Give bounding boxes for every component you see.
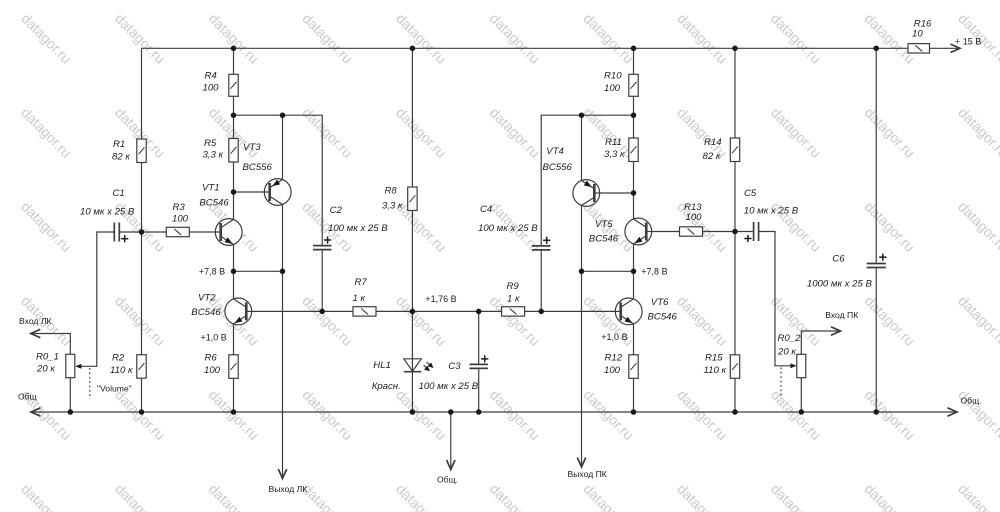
wire output LK xyxy=(282,271,284,477)
wire node to R3 xyxy=(142,231,167,233)
svg-text:10 мк x 25 В: 10 мк x 25 В xyxy=(80,207,135,218)
svg-text:100 мк x 25 В: 100 мк x 25 В xyxy=(419,381,479,392)
wire node to R5 xyxy=(233,115,235,138)
svg-text:R14: R14 xyxy=(704,137,722,148)
wire VT3 base xyxy=(234,191,265,193)
transistor VT1 xyxy=(215,219,242,246)
wire VT2 emitter to R6 xyxy=(233,324,235,355)
resistor R16 xyxy=(908,44,930,53)
svg-text:Вход ЛК: Вход ЛК xyxy=(19,316,51,326)
wire +15V top rail xyxy=(142,47,909,49)
node gnd R2 xyxy=(139,409,145,415)
svg-text:R6: R6 xyxy=(205,353,218,364)
wire R3 to VT1 base xyxy=(189,231,215,233)
svg-text:Общ.: Общ. xyxy=(437,474,458,484)
wire R6 to ground xyxy=(233,378,235,412)
svg-text:Выход ПК: Выход ПК xyxy=(568,469,607,479)
svg-text:Общ.: Общ. xyxy=(961,396,982,406)
capacitor C1 xyxy=(113,223,115,242)
wire R4 node to VT3 emitter node xyxy=(234,114,283,116)
plus C5 xyxy=(744,238,751,240)
node C2 main xyxy=(319,309,325,315)
svg-text:VT5: VT5 xyxy=(595,219,613,230)
svg-text:BC556: BC556 xyxy=(243,162,273,173)
resistor R4 xyxy=(229,74,238,96)
plus C4 xyxy=(543,239,550,241)
node +1,76V xyxy=(410,309,416,315)
wire C4 to main line xyxy=(540,251,542,312)
wire C5 right to pot wiper xyxy=(759,232,791,366)
capacitor C4 xyxy=(532,245,550,247)
resistor R8 xyxy=(408,187,417,211)
svg-text:BC546: BC546 xyxy=(199,198,229,209)
capacitor C2 xyxy=(313,245,331,247)
resistor R5 xyxy=(229,139,238,163)
wire VT4 node to C4 xyxy=(541,115,581,245)
svg-text:"Volume": "Volume" xyxy=(97,383,132,393)
svg-text:VT2: VT2 xyxy=(198,292,216,303)
svg-text:100: 100 xyxy=(204,365,221,376)
node gnd R0_1 xyxy=(68,409,74,415)
wire output PK xyxy=(581,271,583,465)
svg-text:R3: R3 xyxy=(173,202,186,213)
wire VT3 collector xyxy=(282,205,284,272)
wire +7,8V node left xyxy=(234,270,283,272)
svg-text:C3: C3 xyxy=(448,361,461,372)
svg-text:R12: R12 xyxy=(605,353,623,364)
node R4 bottom xyxy=(231,112,237,118)
svg-text:1 к: 1 к xyxy=(353,293,366,304)
wire R9 to C4 node xyxy=(525,310,542,312)
node rail R4 xyxy=(231,46,237,52)
svg-text:VT4: VT4 xyxy=(546,146,564,157)
svg-text:C1: C1 xyxy=(113,188,125,199)
wire VT1 emitter to +7.8V node xyxy=(233,245,235,272)
svg-text:R0_2: R0_2 xyxy=(778,333,802,344)
svg-text:R5: R5 xyxy=(204,138,217,149)
wire rail to R4 xyxy=(233,48,235,74)
svg-text:+1,0 В: +1,0 В xyxy=(201,333,227,343)
svg-text:100: 100 xyxy=(604,83,621,94)
node +7,8V left a xyxy=(231,269,237,275)
wire HL1 to ground xyxy=(411,372,413,412)
transistor VT6 xyxy=(615,298,642,325)
wire R14 to C5 node xyxy=(734,162,736,232)
node gnd R0_2 xyxy=(799,409,805,415)
svg-text:100 мк x 25 В: 100 мк x 25 В xyxy=(328,223,388,234)
node gnd R12 xyxy=(631,409,637,415)
capacitor C3 xyxy=(470,363,488,365)
resistor R12 xyxy=(629,355,638,379)
svg-text:1 к: 1 к xyxy=(507,294,520,305)
svg-text:HL1: HL1 xyxy=(373,360,391,371)
wire left column top xyxy=(141,48,143,139)
node gnd HL1 xyxy=(410,409,416,415)
wire rail to R10 xyxy=(633,48,635,74)
wire C6 to ground xyxy=(875,268,877,412)
wire R7 to HL1 node xyxy=(376,310,412,312)
wire VT4 base xyxy=(600,192,634,194)
wire R1 to R2 xyxy=(141,163,143,355)
potentiometer R0_2 xyxy=(797,354,806,377)
svg-text:Красн.: Красн. xyxy=(372,381,401,392)
transistor VT5 xyxy=(625,218,652,245)
node +7,8V right b xyxy=(631,269,637,275)
node rail R14 xyxy=(732,46,738,52)
node VT5 collector xyxy=(631,190,637,196)
wire R0_1 bottom to ground xyxy=(69,378,71,412)
resistor R10 xyxy=(629,74,638,96)
plus C1 xyxy=(121,238,128,240)
wire VT3 emitter xyxy=(282,115,284,179)
svg-text:C5: C5 xyxy=(744,188,757,199)
wire C2 node to R7 xyxy=(322,310,353,312)
svg-text:100: 100 xyxy=(604,365,621,376)
LED HL1 xyxy=(404,359,422,371)
arrow output PK xyxy=(577,458,585,468)
svg-text:R7: R7 xyxy=(355,277,368,288)
svg-text:R8: R8 xyxy=(385,186,398,197)
node rail R8 xyxy=(410,46,416,52)
wire VT5 emitter to +7.8V node xyxy=(633,244,635,271)
svg-text:C2: C2 xyxy=(330,205,343,216)
plus C6 xyxy=(879,256,886,258)
resistor R14 xyxy=(730,138,739,162)
svg-text:BC546: BC546 xyxy=(191,307,221,318)
svg-text:110 к: 110 к xyxy=(704,365,727,376)
wire R0_1 top to input arrow xyxy=(33,334,71,355)
wire R10 to node xyxy=(633,96,635,115)
resistor R15 xyxy=(730,355,739,379)
resistor R6 xyxy=(229,355,238,379)
arrow input PK xyxy=(831,327,841,335)
mech link R0_2 dashed xyxy=(780,368,782,399)
wiper arrow R0_2 xyxy=(790,363,796,368)
wire VT4 emitter xyxy=(581,115,583,180)
wire C5 node to R15 xyxy=(734,232,736,355)
svg-text:R2: R2 xyxy=(112,353,125,364)
svg-text:10: 10 xyxy=(912,29,923,40)
arrow output LK xyxy=(278,469,286,479)
wire C4 node to VT6 base xyxy=(541,310,616,312)
+15V arrow xyxy=(951,44,961,52)
svg-text:BC546: BC546 xyxy=(589,233,619,244)
node rail C6 xyxy=(873,46,879,52)
svg-text:R10: R10 xyxy=(604,71,622,82)
svg-text:+7,8 В: +7,8 В xyxy=(199,267,225,277)
wire VT6 collector xyxy=(633,271,635,298)
svg-text:20 к: 20 к xyxy=(777,347,796,358)
svg-text:BC556: BC556 xyxy=(543,162,573,173)
resistor R2 xyxy=(137,355,146,379)
svg-text:1000 мк x 25 В: 1000 мк x 25 В xyxy=(807,279,873,290)
wire R4 to node xyxy=(233,96,235,115)
svg-text:100 мк x 25 В: 100 мк x 25 В xyxy=(478,223,538,234)
node VT3 emitter xyxy=(280,112,286,118)
svg-text:100: 100 xyxy=(172,213,189,224)
wire R10 node to VT4 emitter node xyxy=(582,114,634,116)
svg-text:R0_1: R0_1 xyxy=(36,352,59,363)
svg-text:R11: R11 xyxy=(605,137,622,148)
svg-text:VT6: VT6 xyxy=(651,297,669,308)
wire VT5 base to R13 xyxy=(652,231,680,233)
node C4 main xyxy=(538,309,544,315)
ground arrow right xyxy=(948,408,958,416)
svg-text:100: 100 xyxy=(686,212,703,223)
plus C2 xyxy=(324,239,331,241)
wire R0_2 top to input arrow xyxy=(801,331,839,354)
svg-text:VT1: VT1 xyxy=(202,183,220,194)
node gnd R15 xyxy=(732,409,738,415)
HL1 light arrows xyxy=(427,362,431,365)
wire main line to HL1 xyxy=(411,311,413,371)
node C3 main xyxy=(476,309,482,315)
wire rail to R14 xyxy=(734,48,736,138)
wire VT4 collector xyxy=(581,206,583,272)
wire C3 to ground xyxy=(478,369,480,412)
resistor R11 xyxy=(629,138,638,162)
node VT1 collector xyxy=(231,189,237,195)
resistor R7 xyxy=(353,307,376,316)
wire +7,8V node right xyxy=(582,270,634,272)
wire R12 to ground xyxy=(633,378,635,412)
capacitor C5 xyxy=(753,222,755,241)
transistor VT2 xyxy=(225,298,252,325)
node gnd stub xyxy=(448,409,454,415)
node rail R10 xyxy=(631,46,637,52)
svg-text:110 к: 110 к xyxy=(110,365,133,376)
node gnd C6 xyxy=(873,409,879,415)
svg-text:Вход ПК: Вход ПК xyxy=(825,310,858,320)
node gnd C3 xyxy=(476,409,482,415)
node gnd R6 xyxy=(231,409,237,415)
node C1 R1 xyxy=(139,229,145,235)
node R10 bottom xyxy=(631,112,637,118)
svg-text:BC546: BC546 xyxy=(648,311,678,322)
capacitor C6 xyxy=(867,263,886,265)
svg-text:R1: R1 xyxy=(113,139,125,150)
wire rail to C6 xyxy=(875,48,877,263)
wire rail to R8 xyxy=(411,48,413,187)
wire R13 to C5 node xyxy=(703,231,736,233)
wire HL1 node to C3 node xyxy=(412,310,478,312)
wire main line to C3 xyxy=(478,311,480,363)
node C5 R14 xyxy=(732,229,738,235)
wire node to C5 xyxy=(735,231,754,233)
wire VT2 collector xyxy=(233,271,235,299)
wire R8 to main line xyxy=(411,211,413,312)
wire VT1 collector xyxy=(233,192,235,220)
svg-text:Выход ЛК: Выход ЛК xyxy=(269,484,308,494)
resistor R13 xyxy=(680,227,703,236)
wire VT3 node to C2 xyxy=(283,115,323,245)
transistor VT3 xyxy=(264,179,291,206)
wire VT5 collector xyxy=(633,193,635,219)
ground arrow left xyxy=(31,408,41,416)
wire R16 to +15V arrow xyxy=(930,47,960,49)
wire R15 to ground xyxy=(734,378,736,412)
node +7,8V left b xyxy=(280,269,286,275)
svg-text:R4: R4 xyxy=(205,71,217,82)
resistor R9 xyxy=(502,307,525,316)
svg-text:+1,76 В: +1,76 В xyxy=(425,294,456,304)
svg-text:Общ: Общ xyxy=(18,391,37,401)
potentiometer R0_1 xyxy=(66,354,75,377)
svg-text:R9: R9 xyxy=(507,281,520,292)
svg-text:C6: C6 xyxy=(832,253,845,264)
wire R11 to VT5 collector node xyxy=(633,162,635,194)
svg-text:C4: C4 xyxy=(480,204,492,215)
svg-text:82 к: 82 к xyxy=(703,151,721,162)
svg-text:20 к: 20 к xyxy=(36,364,55,375)
wire VT6 emitter to R12 xyxy=(633,324,635,355)
ground rail xyxy=(31,411,957,413)
wire node to R11 xyxy=(633,115,635,138)
svg-text:+1,0 В: +1,0 В xyxy=(601,332,627,342)
wire ground stub middle xyxy=(450,412,452,468)
wire VT2 base to C2 node xyxy=(252,310,323,312)
wire R0_2 bottom to ground xyxy=(800,378,802,412)
svg-text:100: 100 xyxy=(203,83,220,94)
wire R2 to ground xyxy=(141,378,143,412)
arrow ground middle xyxy=(447,460,455,470)
wire R5 to VT1 collector node xyxy=(233,162,235,192)
wire C3 node to R9 xyxy=(479,310,502,312)
svg-text:10 мк x 25 В: 10 мк x 25 В xyxy=(744,206,799,217)
svg-text:+7,8 В: +7,8 В xyxy=(641,267,667,277)
node +7,8V right a xyxy=(579,269,585,275)
wire C1 left to pot wiper xyxy=(81,232,114,366)
node VT4 emitter xyxy=(579,112,585,118)
svg-text:VT3: VT3 xyxy=(243,142,261,153)
svg-text:3,3 к: 3,3 к xyxy=(382,201,403,212)
svg-text:3,3 к: 3,3 к xyxy=(203,150,224,161)
svg-text:3,3 к: 3,3 к xyxy=(604,149,625,160)
wiper arrow R0_1 xyxy=(75,364,81,369)
wire C1 right to node xyxy=(120,231,142,233)
resistor R1 xyxy=(137,139,146,163)
plus C3 xyxy=(481,358,488,360)
arrow input LK xyxy=(31,329,41,337)
mech link R0_1 dashed xyxy=(89,368,91,399)
svg-text:82 к: 82 к xyxy=(112,152,130,163)
resistor R3 xyxy=(166,227,189,236)
svg-text:+ 15 В: + 15 В xyxy=(955,36,981,46)
transistor VT4 xyxy=(573,180,600,207)
svg-text:R15: R15 xyxy=(705,353,723,364)
wire C2 to main line xyxy=(321,250,323,311)
